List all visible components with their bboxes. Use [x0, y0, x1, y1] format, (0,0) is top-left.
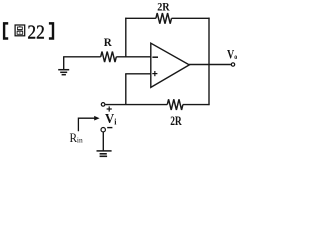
- wire: bottom rail left segment: [106, 104, 168, 106]
- figure caption 【圖 22】: [3, 22, 54, 44]
- resistor 2R (bottom feedback): [167, 99, 183, 110]
- op-amp inverting input marker (minus): [152, 56, 158, 58]
- label Vi: [105, 112, 117, 127]
- wire: top rail right segment: [172, 17, 210, 19]
- wire: ground to resistor R: [63, 56, 101, 58]
- wire: right vertical (top rail down through output to bottom rail): [208, 18, 210, 106]
- svg-text:2R: 2R: [157, 2, 170, 14]
- ground GND2 (bottom): [97, 151, 112, 156]
- node Vi+ terminal: [101, 103, 105, 107]
- label - (Vi polarity): [107, 127, 112, 129]
- op-amp non-inverting input marker (plus): [152, 71, 157, 76]
- label + (Vi polarity): [107, 106, 112, 111]
- label Vo: [227, 48, 237, 62]
- svg-text:V: V: [227, 48, 234, 62]
- wire: left feedback vertical (inverting node up to top rail): [125, 18, 127, 57]
- wire: R to op-amp inverting input: [116, 56, 151, 58]
- resistor R: [101, 52, 117, 63]
- wire: non-inverting leg down to bottom rail: [125, 74, 127, 105]
- wire: top rail left segment: [125, 17, 156, 19]
- op-amp U1: [151, 43, 190, 87]
- wire: bottom rail right segment: [183, 104, 210, 106]
- svg-text:R: R: [104, 35, 112, 49]
- wire: op-amp output to Vo terminal: [189, 64, 231, 66]
- node Vo terminal: [231, 63, 234, 66]
- svg-text:2R: 2R: [170, 114, 182, 128]
- svg-text:V: V: [105, 112, 114, 127]
- resistor 2R (top feedback): [156, 13, 172, 24]
- node Vi- terminal: [101, 128, 105, 132]
- svg-text:in: in: [77, 136, 83, 145]
- wire: non-inverting input horizontal: [125, 73, 151, 75]
- ground GND1 (left): [58, 57, 69, 75]
- label Rin with input-resistance arrow: [70, 116, 100, 145]
- wire: Vi- terminal down to ground: [102, 132, 104, 151]
- svg-text:22: 22: [27, 22, 44, 44]
- svg-text:o: o: [234, 52, 237, 61]
